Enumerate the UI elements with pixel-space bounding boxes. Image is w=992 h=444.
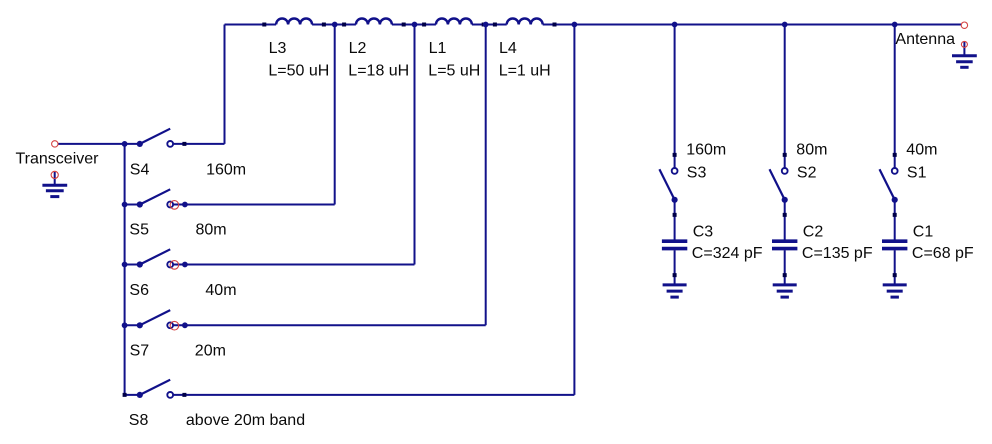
svg-text:160m: 160m	[206, 161, 246, 178]
svg-text:C=324 pF: C=324 pF	[692, 245, 763, 262]
svg-text:S8: S8	[129, 412, 149, 429]
svg-text:C=68 pF: C=68 pF	[912, 245, 974, 262]
svg-text:C2: C2	[803, 223, 824, 240]
svg-text:L=5 uH: L=5 uH	[428, 63, 480, 80]
svg-text:160m: 160m	[686, 142, 726, 159]
svg-text:S5: S5	[129, 222, 149, 239]
svg-text:Transceiver: Transceiver	[16, 151, 100, 168]
svg-text:S7: S7	[130, 342, 150, 359]
svg-text:C1: C1	[913, 223, 934, 240]
svg-text:L=50 uH: L=50 uH	[268, 63, 329, 80]
svg-text:L3: L3	[269, 40, 287, 57]
svg-text:L4: L4	[499, 40, 517, 57]
svg-text:C=135 pF: C=135 pF	[802, 245, 873, 262]
svg-text:above 20m band: above 20m band	[186, 412, 305, 429]
svg-text:20m: 20m	[195, 342, 226, 359]
svg-text:S4: S4	[130, 161, 150, 178]
svg-text:S1: S1	[907, 165, 927, 182]
svg-text:C3: C3	[693, 223, 714, 240]
svg-text:Antenna: Antenna	[895, 31, 955, 48]
svg-text:L=18 uH: L=18 uH	[348, 63, 409, 80]
svg-text:L2: L2	[349, 40, 367, 57]
svg-text:S6: S6	[129, 282, 149, 299]
svg-text:L1: L1	[429, 40, 447, 57]
svg-text:80m: 80m	[196, 222, 227, 239]
svg-text:80m: 80m	[796, 142, 827, 159]
svg-text:S3: S3	[687, 165, 707, 182]
svg-text:L=1 uH: L=1 uH	[499, 63, 551, 80]
svg-text:S2: S2	[797, 165, 817, 182]
svg-text:40m: 40m	[205, 282, 236, 299]
svg-text:40m: 40m	[906, 142, 937, 159]
